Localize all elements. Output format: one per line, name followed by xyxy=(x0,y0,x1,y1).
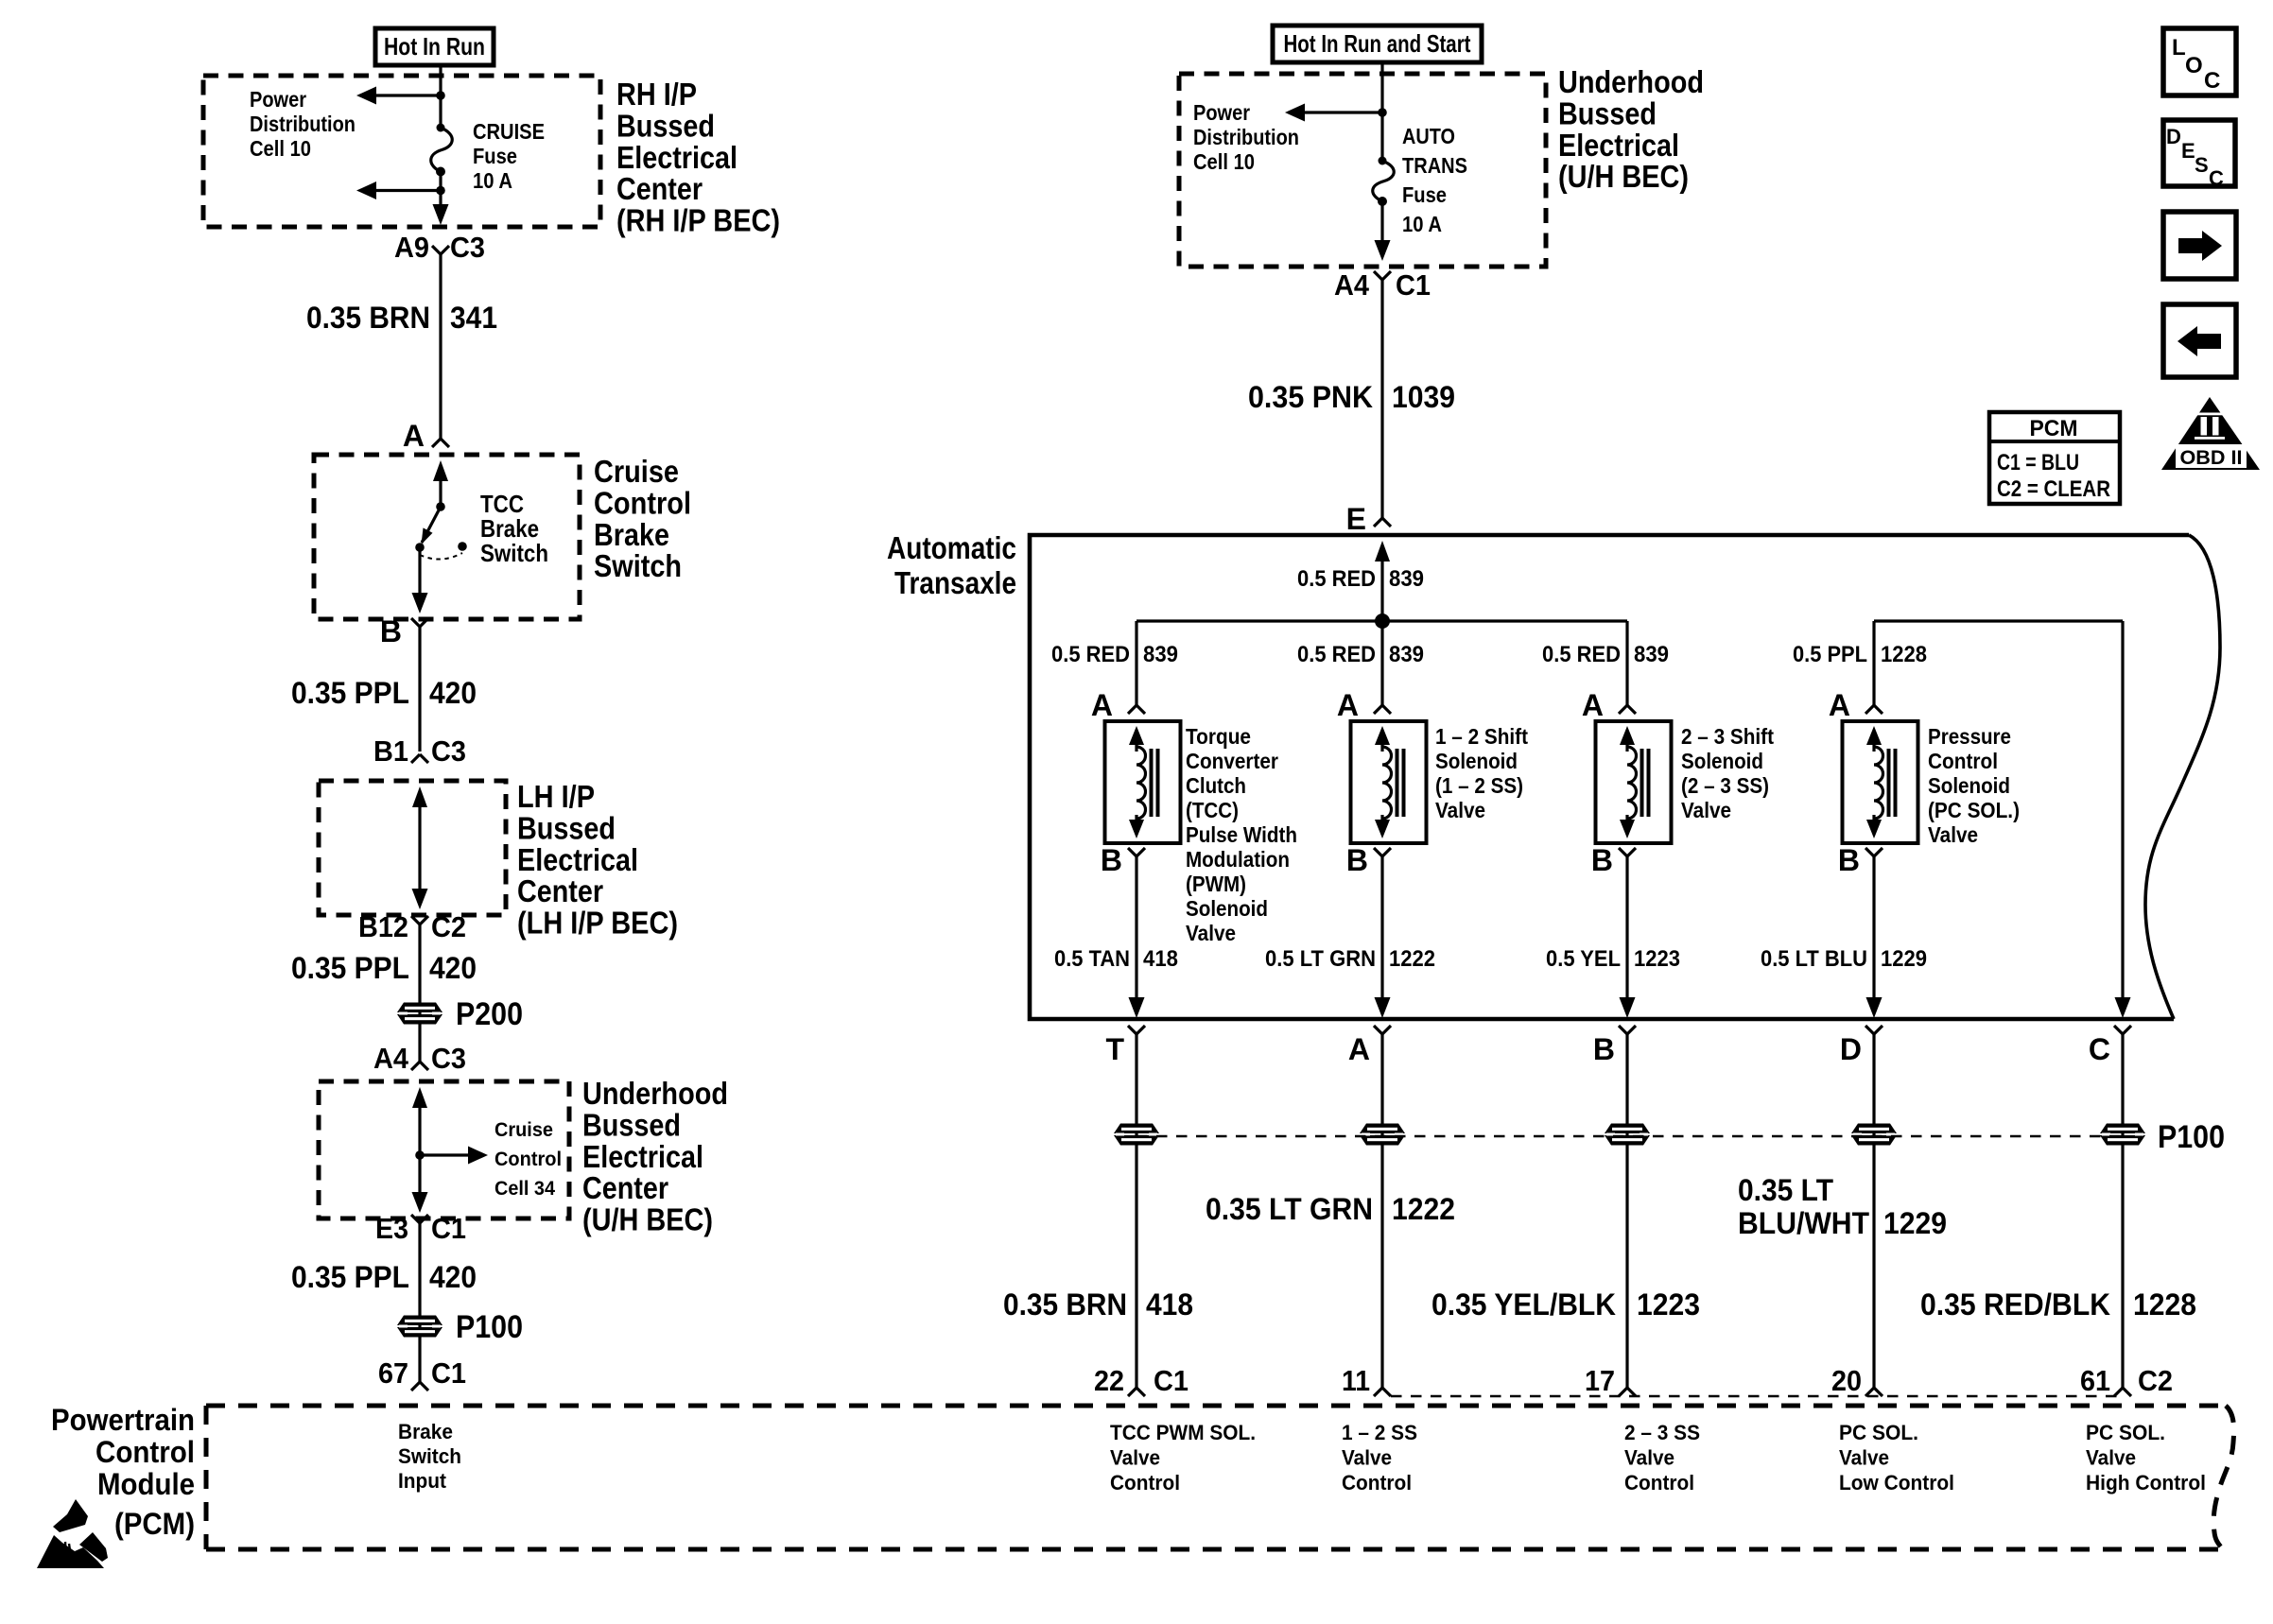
svg-text:0.5 RED: 0.5 RED xyxy=(1297,566,1376,592)
svg-text:20: 20 xyxy=(1831,1364,1862,1397)
svg-text:(2 – 3 SS): (2 – 3 SS) xyxy=(1681,773,1769,798)
svg-text:B: B xyxy=(1101,843,1122,877)
svg-text:D: D xyxy=(1840,1032,1862,1066)
svg-text:C3: C3 xyxy=(431,734,466,768)
svg-text:420: 420 xyxy=(429,951,477,985)
svg-text:0.5 PPL: 0.5 PPL xyxy=(1793,642,1867,667)
svg-text:PCM: PCM xyxy=(2030,416,2078,441)
svg-text:Distribution: Distribution xyxy=(250,112,356,136)
svg-text:Pulse Width: Pulse Width xyxy=(1186,822,1297,847)
svg-text:0.35 YEL/BLK: 0.35 YEL/BLK xyxy=(1431,1287,1616,1322)
svg-text:Cruise: Cruise xyxy=(594,454,679,489)
svg-text:Valve: Valve xyxy=(1839,1446,1889,1470)
svg-text:Center: Center xyxy=(616,171,703,206)
svg-text:Solenoid: Solenoid xyxy=(1928,773,2010,798)
svg-text:Control: Control xyxy=(594,485,691,520)
svg-text:Underhood: Underhood xyxy=(1558,64,1704,99)
svg-text:Modulation: Modulation xyxy=(1186,847,1290,872)
svg-text:C1: C1 xyxy=(1154,1364,1189,1397)
svg-text:E: E xyxy=(1346,502,1366,536)
svg-text:0.35 BRN: 0.35 BRN xyxy=(306,301,430,335)
svg-text:1222: 1222 xyxy=(1392,1192,1455,1226)
svg-text:Powertrain: Powertrain xyxy=(51,1403,195,1437)
svg-text:C1: C1 xyxy=(1396,268,1431,302)
svg-text:67: 67 xyxy=(378,1356,408,1390)
svg-text:C1 = BLU: C1 = BLU xyxy=(1997,450,2079,475)
svg-text:Cell 10: Cell 10 xyxy=(250,136,311,161)
svg-text:0.35 PNK: 0.35 PNK xyxy=(1248,380,1373,414)
svg-text:Underhood: Underhood xyxy=(582,1076,728,1111)
svg-text:B: B xyxy=(380,614,402,648)
svg-text:S: S xyxy=(2195,153,2209,177)
svg-text:420: 420 xyxy=(429,676,477,710)
svg-text:0.35 LT GRN: 0.35 LT GRN xyxy=(1206,1192,1373,1226)
svg-text:E: E xyxy=(2181,139,2195,163)
svg-text:Solenoid: Solenoid xyxy=(1681,749,1763,773)
svg-text:1229: 1229 xyxy=(1883,1206,1947,1240)
svg-text:B: B xyxy=(1593,1032,1615,1066)
svg-text:Solenoid: Solenoid xyxy=(1186,896,1268,921)
svg-text:0.35 RED/BLK: 0.35 RED/BLK xyxy=(1920,1287,2110,1322)
svg-text:11: 11 xyxy=(1342,1364,1370,1397)
svg-text:(PC SOL.): (PC SOL.) xyxy=(1928,798,2020,822)
svg-text:1 – 2 SS: 1 – 2 SS xyxy=(1342,1421,1417,1444)
svg-text:C: C xyxy=(2089,1032,2110,1066)
svg-text:High Control: High Control xyxy=(2086,1471,2206,1494)
svg-text:Cell 34: Cell 34 xyxy=(495,1177,555,1200)
svg-text:418: 418 xyxy=(1146,1287,1193,1322)
svg-text:B: B xyxy=(1838,843,1860,877)
svg-text:Switch: Switch xyxy=(398,1444,461,1468)
svg-text:OBD II: OBD II xyxy=(2180,447,2243,469)
svg-text:Hot In Run: Hot In Run xyxy=(384,32,485,60)
svg-text:0.5 LT BLU: 0.5 LT BLU xyxy=(1761,946,1867,972)
svg-text:1039: 1039 xyxy=(1392,380,1455,414)
svg-text:2 – 3 Shift: 2 – 3 Shift xyxy=(1681,724,1774,749)
svg-text:Pressure: Pressure xyxy=(1928,724,2011,749)
svg-text:C2 = CLEAR: C2 = CLEAR xyxy=(1997,476,2110,502)
svg-text:O: O xyxy=(2185,53,2203,78)
svg-text:10 A: 10 A xyxy=(473,168,512,193)
svg-text:Control: Control xyxy=(1110,1471,1180,1494)
svg-text:Power: Power xyxy=(1193,100,1250,125)
svg-text:C1: C1 xyxy=(431,1356,466,1390)
svg-text:RH I/P: RH I/P xyxy=(616,77,697,112)
svg-text:839: 839 xyxy=(1143,642,1178,667)
svg-text:0.5 RED: 0.5 RED xyxy=(1297,642,1376,667)
svg-text:Valve: Valve xyxy=(1342,1446,1392,1470)
svg-text:1223: 1223 xyxy=(1634,946,1680,972)
svg-text:0.35 PPL: 0.35 PPL xyxy=(291,1260,409,1294)
svg-text:(U/H BEC): (U/H BEC) xyxy=(582,1202,713,1237)
svg-text:Switch: Switch xyxy=(480,539,548,567)
svg-text:Valve: Valve xyxy=(1624,1446,1674,1470)
svg-text:A: A xyxy=(1348,1032,1370,1066)
svg-text:(PCM): (PCM) xyxy=(114,1507,195,1541)
svg-text:PC SOL.: PC SOL. xyxy=(2086,1421,2165,1444)
svg-text:0.5 TAN: 0.5 TAN xyxy=(1054,946,1130,972)
svg-text:Solenoid: Solenoid xyxy=(1435,749,1518,773)
svg-text:A9: A9 xyxy=(394,231,429,264)
svg-text:1228: 1228 xyxy=(2133,1287,2196,1322)
svg-text:Cell 10: Cell 10 xyxy=(1193,149,1255,174)
svg-text:A: A xyxy=(1582,688,1604,722)
svg-text:L: L xyxy=(2172,35,2186,60)
svg-text:CRUISE: CRUISE xyxy=(473,119,545,144)
svg-text:TRANS: TRANS xyxy=(1402,153,1467,178)
svg-text:Control: Control xyxy=(1624,1471,1694,1494)
svg-text:P200: P200 xyxy=(456,996,523,1032)
svg-text:420: 420 xyxy=(429,1260,477,1294)
svg-text:(U/H BEC): (U/H BEC) xyxy=(1558,159,1689,194)
svg-text:A4: A4 xyxy=(373,1042,409,1075)
svg-text:61: 61 xyxy=(2080,1364,2110,1397)
svg-text:(PWM): (PWM) xyxy=(1186,872,1246,896)
svg-text:Bussed: Bussed xyxy=(582,1107,681,1142)
svg-text:B: B xyxy=(1346,843,1368,877)
svg-text:0.35 PPL: 0.35 PPL xyxy=(291,951,409,985)
svg-text:Converter: Converter xyxy=(1186,749,1278,773)
svg-text:A: A xyxy=(1091,688,1113,722)
svg-text:A: A xyxy=(1337,688,1359,722)
svg-text:Control: Control xyxy=(495,1148,562,1170)
svg-text:A4: A4 xyxy=(1334,268,1370,302)
svg-text:TCC PWM SOL.: TCC PWM SOL. xyxy=(1110,1421,1256,1444)
svg-text:Low Control: Low Control xyxy=(1839,1471,1954,1494)
svg-text:Valve: Valve xyxy=(1928,822,1978,847)
svg-text:BLU/WHT: BLU/WHT xyxy=(1738,1206,1869,1240)
svg-text:Cruise: Cruise xyxy=(495,1118,553,1141)
svg-text:Electrical: Electrical xyxy=(517,842,638,877)
svg-text:Control: Control xyxy=(1928,749,1998,773)
svg-text:22: 22 xyxy=(1094,1364,1124,1397)
svg-text:0.35 PPL: 0.35 PPL xyxy=(291,676,409,710)
svg-text:0.5 LT GRN: 0.5 LT GRN xyxy=(1265,946,1376,972)
svg-text:0.35 BRN: 0.35 BRN xyxy=(1003,1287,1127,1322)
svg-text:2 – 3 SS: 2 – 3 SS xyxy=(1624,1421,1700,1444)
svg-text:(TCC): (TCC) xyxy=(1186,798,1239,822)
svg-text:PC SOL.: PC SOL. xyxy=(1839,1421,1918,1444)
svg-text:Bussed: Bussed xyxy=(517,810,616,845)
svg-text:AUTO: AUTO xyxy=(1402,124,1455,148)
svg-text:Brake: Brake xyxy=(594,517,669,552)
svg-text:1222: 1222 xyxy=(1389,946,1435,972)
svg-text:341: 341 xyxy=(450,301,497,335)
svg-text:839: 839 xyxy=(1634,642,1669,667)
svg-text:Center: Center xyxy=(582,1170,668,1205)
svg-text:Electrical: Electrical xyxy=(1558,128,1679,163)
svg-text:C: C xyxy=(2209,166,2224,190)
svg-text:839: 839 xyxy=(1389,642,1424,667)
svg-text:C1: C1 xyxy=(431,1212,466,1245)
svg-text:Switch: Switch xyxy=(594,548,682,583)
svg-text:Hot In Run and Start: Hot In Run and Start xyxy=(1284,29,1471,58)
svg-text:Clutch: Clutch xyxy=(1186,773,1246,798)
svg-text:839: 839 xyxy=(1389,566,1424,592)
svg-text:Valve: Valve xyxy=(1110,1446,1160,1470)
svg-text:Power: Power xyxy=(250,87,306,112)
svg-text:Module: Module xyxy=(97,1467,195,1501)
svg-text:D: D xyxy=(2166,125,2181,148)
svg-text:Fuse: Fuse xyxy=(473,144,517,168)
svg-text:Center: Center xyxy=(517,873,603,908)
svg-text:Valve: Valve xyxy=(1186,921,1236,945)
svg-text:Valve: Valve xyxy=(1435,798,1485,822)
svg-text:10 A: 10 A xyxy=(1402,212,1442,236)
svg-text:0.35 LT: 0.35 LT xyxy=(1738,1173,1833,1207)
svg-text:C2: C2 xyxy=(431,910,466,943)
svg-text:B1: B1 xyxy=(373,734,408,768)
svg-text:Bussed: Bussed xyxy=(616,108,715,143)
svg-text:P100: P100 xyxy=(2158,1119,2225,1155)
svg-text:Bussed: Bussed xyxy=(1558,95,1657,130)
svg-text:1 – 2 Shift: 1 – 2 Shift xyxy=(1435,724,1528,749)
svg-text:LH I/P: LH I/P xyxy=(517,779,595,814)
svg-text:B12: B12 xyxy=(358,910,408,943)
svg-text:Electrical: Electrical xyxy=(616,140,737,175)
svg-text:Valve: Valve xyxy=(2086,1446,2136,1470)
svg-text:Valve: Valve xyxy=(1681,798,1731,822)
svg-text:B: B xyxy=(1591,843,1613,877)
svg-text:Input: Input xyxy=(398,1469,447,1493)
svg-text:Electrical: Electrical xyxy=(582,1139,703,1174)
svg-text:Torque: Torque xyxy=(1186,724,1251,749)
svg-text:1223: 1223 xyxy=(1637,1287,1700,1322)
svg-text:Distribution: Distribution xyxy=(1193,125,1299,149)
svg-text:(LH I/P BEC): (LH I/P BEC) xyxy=(517,906,678,941)
svg-text:C2: C2 xyxy=(2138,1364,2173,1397)
svg-text:Transaxle: Transaxle xyxy=(894,565,1016,600)
svg-text:A: A xyxy=(1829,688,1850,722)
svg-text:Fuse: Fuse xyxy=(1402,182,1447,207)
svg-text:Automatic: Automatic xyxy=(887,530,1016,565)
svg-text:T: T xyxy=(1105,1032,1124,1066)
svg-text:0.5 YEL: 0.5 YEL xyxy=(1546,946,1621,972)
svg-text:418: 418 xyxy=(1143,946,1178,972)
svg-text:Brake: Brake xyxy=(398,1420,453,1443)
svg-text:17: 17 xyxy=(1585,1364,1615,1397)
svg-text:1228: 1228 xyxy=(1881,642,1927,667)
svg-text:A: A xyxy=(403,419,425,453)
svg-text:1229: 1229 xyxy=(1881,946,1927,972)
svg-text:E3: E3 xyxy=(375,1212,408,1245)
svg-text:0.5 RED: 0.5 RED xyxy=(1051,642,1130,667)
svg-text:P100: P100 xyxy=(456,1309,523,1345)
svg-text:0.5 RED: 0.5 RED xyxy=(1542,642,1621,667)
svg-text:C3: C3 xyxy=(450,231,485,264)
svg-text:Control: Control xyxy=(1342,1471,1412,1494)
svg-text:(RH I/P BEC): (RH I/P BEC) xyxy=(616,203,780,238)
svg-text:C3: C3 xyxy=(431,1042,466,1075)
svg-text:(1 – 2 SS): (1 – 2 SS) xyxy=(1435,773,1523,798)
svg-text:Control: Control xyxy=(95,1435,195,1469)
svg-text:C: C xyxy=(2204,68,2220,94)
